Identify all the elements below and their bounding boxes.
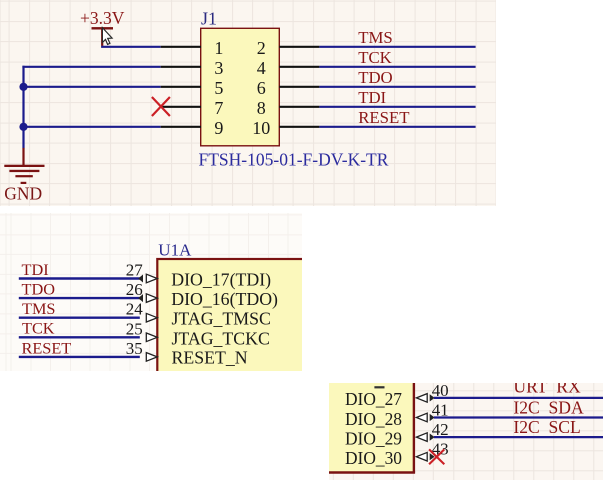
svg-text:DIO_28: DIO_28 <box>345 409 402 429</box>
pin stub J1.5 <box>161 86 201 88</box>
wire TCK <box>319 66 475 68</box>
input arrow pin24 <box>146 313 157 322</box>
input arrow pin27 <box>146 274 157 283</box>
wire TCK <box>19 336 140 338</box>
svg-text:3: 3 <box>214 58 223 78</box>
svg-text:FTSH-105-01-F-DV-K-TR: FTSH-105-01-F-DV-K-TR <box>199 149 389 169</box>
svg-text:J1: J1 <box>201 9 217 29</box>
svg-text:DIO_16(TDO): DIO_16(TDO) <box>171 289 278 310</box>
pin stub J1.7 <box>161 106 201 108</box>
svg-text:2: 2 <box>257 38 266 58</box>
bidir out-arrow pin26 <box>138 294 143 302</box>
svg-text:DIO_30: DIO_30 <box>345 448 402 468</box>
svg-text:TCK: TCK <box>22 318 55 337</box>
pin stub J1.4 <box>279 66 319 68</box>
body bottom border <box>329 471 415 473</box>
pin stub J1.8 <box>279 106 319 108</box>
wire TDI <box>319 106 475 108</box>
wire pin3 <box>22 66 160 68</box>
wire TMS <box>19 316 140 318</box>
svg-text:GND: GND <box>4 184 42 204</box>
svg-text:4: 4 <box>257 58 266 78</box>
mouse cursor <box>102 28 112 45</box>
ground bar 4 <box>21 182 27 184</box>
input arrow pin25 <box>146 333 157 342</box>
power port stem <box>101 28 103 46</box>
svg-text:26: 26 <box>126 280 143 299</box>
ground bar 1 <box>4 165 44 167</box>
pin stub J1.2 <box>279 46 319 48</box>
input arrow pin35 <box>146 352 157 361</box>
bidir out-arrow pin27 <box>138 274 143 282</box>
svg-text:7: 7 <box>214 98 223 118</box>
ground bar 2 <box>9 170 39 172</box>
svg-text:25: 25 <box>126 319 143 338</box>
svg-text:8: 8 <box>257 98 266 118</box>
pin stub J1.1 <box>161 46 201 48</box>
svg-text:+3.3V: +3.3V <box>80 8 125 28</box>
connector J1 body <box>201 28 280 146</box>
svg-text:RESET_N: RESET_N <box>172 347 248 367</box>
svg-text:9: 9 <box>214 118 223 138</box>
pin stub J1.3 <box>161 66 201 68</box>
cut-off underscore of DIO_26 <box>374 386 384 388</box>
svg-text:RESET: RESET <box>358 108 409 127</box>
wire TDO <box>19 296 140 298</box>
input arrow pin42 <box>416 433 427 442</box>
U1 body (cropped left/top) <box>320 370 413 472</box>
input arrow pin26 <box>146 293 157 302</box>
crop C : U1B DIO pins region <box>329 383 603 480</box>
junction dot pin9 <box>19 123 27 131</box>
svg-text:TMS: TMS <box>22 299 55 318</box>
wire I2C SDA <box>433 416 602 418</box>
pin stub J1.9 <box>161 126 201 128</box>
wire URT RX <box>433 397 602 399</box>
svg-text:RESET: RESET <box>22 338 72 357</box>
svg-text:10: 10 <box>252 118 270 138</box>
pin stub J1.10 <box>279 126 319 128</box>
crop B : U1A JTAG pins region <box>0 213 302 371</box>
svg-text:URT RX: URT RX <box>513 383 581 397</box>
wire TDI <box>19 277 140 279</box>
bidir out-arrow pin42 <box>429 433 434 440</box>
svg-text:U1A: U1A <box>158 240 192 259</box>
bidir out-arrow pin40 <box>429 394 434 401</box>
wire RESET <box>319 126 475 128</box>
svg-text:1: 1 <box>214 38 223 58</box>
svg-text:I2C SCL: I2C SCL <box>513 417 580 437</box>
svg-text:I2C SDA: I2C SDA <box>513 397 584 417</box>
U1A body (cropped right/bottom) <box>157 259 317 389</box>
svg-text:35: 35 <box>126 338 143 357</box>
body right border <box>412 382 414 472</box>
wire pin9 <box>22 126 160 128</box>
input arrow pin41 <box>416 413 427 422</box>
svg-text:TCK: TCK <box>358 48 392 67</box>
input arrow pin43 <box>416 452 427 461</box>
wire I2C SCL <box>433 436 602 438</box>
junction dot pin5 <box>19 83 27 91</box>
no-ERC cross on pin7 <box>152 97 170 116</box>
svg-text:JTAG_TCKC: JTAG_TCKC <box>172 328 270 348</box>
no-ERC cross on pin43 <box>429 449 444 464</box>
wire TMS <box>319 46 475 48</box>
ground stem <box>22 148 24 165</box>
svg-text:24: 24 <box>126 299 144 318</box>
wire pin1 from power <box>101 46 161 48</box>
svg-text:6: 6 <box>257 78 266 98</box>
pin stub J1.6 <box>279 86 319 88</box>
svg-text:TDO: TDO <box>358 68 393 87</box>
svg-text:TMS: TMS <box>358 28 393 47</box>
svg-text:TDI: TDI <box>22 259 49 278</box>
power port +3.3V bar <box>92 27 114 29</box>
svg-text:DIO_27: DIO_27 <box>345 389 402 409</box>
svg-text:TDO: TDO <box>22 279 56 298</box>
svg-text:5: 5 <box>214 78 223 98</box>
wire pin5 <box>22 86 160 88</box>
svg-text:DIO_29: DIO_29 <box>345 428 402 448</box>
ground bar 3 <box>15 175 32 177</box>
svg-text:JTAG_TMSC: JTAG_TMSC <box>172 308 271 328</box>
wire TDO <box>319 86 475 88</box>
wire RESET <box>19 355 140 357</box>
svg-text:DIO_17(TDI): DIO_17(TDI) <box>171 269 271 290</box>
input arrow pin40 <box>416 394 427 403</box>
wire vertical gnd bus <box>22 66 24 149</box>
bidir out-arrow pin43 <box>429 453 434 460</box>
svg-text:TDI: TDI <box>358 88 386 107</box>
bidir out-arrow pin41 <box>429 414 434 421</box>
crop A : JTAG connector J1 schematic region <box>0 0 496 206</box>
